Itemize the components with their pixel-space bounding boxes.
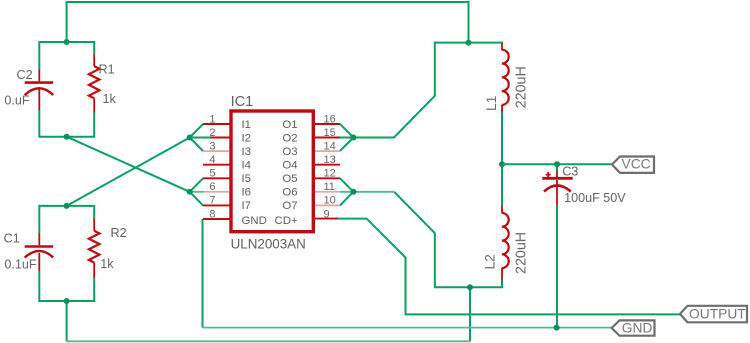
- svg-text:ULN2003AN: ULN2003AN: [231, 236, 306, 251]
- svg-text:I2: I2: [242, 132, 252, 144]
- svg-text:14: 14: [324, 140, 336, 152]
- svg-text:5: 5: [209, 168, 215, 180]
- svg-text:2: 2: [209, 127, 215, 139]
- svg-text:6: 6: [209, 181, 215, 193]
- svg-text:O7: O7: [282, 200, 297, 212]
- svg-text:C3: C3: [562, 165, 578, 179]
- svg-text:8: 8: [209, 208, 215, 220]
- svg-text:220uH: 220uH: [514, 66, 530, 108]
- svg-text:4: 4: [209, 154, 215, 166]
- svg-text:I3: I3: [242, 146, 252, 158]
- svg-text:GND: GND: [242, 215, 267, 227]
- svg-text:I1: I1: [242, 119, 252, 131]
- svg-text:I6: I6: [242, 187, 252, 199]
- svg-text:L2: L2: [483, 254, 498, 269]
- svg-text:L1: L1: [484, 96, 499, 111]
- svg-text:VCC: VCC: [622, 157, 651, 172]
- svg-text:O3: O3: [282, 146, 297, 158]
- svg-text:CD+: CD+: [274, 215, 297, 227]
- svg-text:O2: O2: [282, 132, 297, 144]
- svg-text:1: 1: [209, 113, 215, 125]
- svg-text:7: 7: [209, 195, 215, 207]
- svg-text:15: 15: [324, 127, 336, 139]
- svg-text:10: 10: [324, 195, 336, 207]
- svg-text:OUTPUT: OUTPUT: [689, 306, 746, 321]
- svg-text:O6: O6: [282, 187, 297, 199]
- svg-text:100uF 50V: 100uF 50V: [564, 191, 626, 205]
- svg-text:R1: R1: [99, 63, 115, 77]
- svg-text:220uH: 220uH: [514, 232, 530, 274]
- svg-text:R2: R2: [111, 226, 127, 240]
- svg-text:9: 9: [324, 208, 330, 220]
- svg-text:3: 3: [209, 140, 215, 152]
- svg-text:I5: I5: [242, 173, 252, 185]
- svg-text:O4: O4: [282, 160, 297, 172]
- svg-text:O5: O5: [282, 173, 297, 185]
- svg-text:IC1: IC1: [231, 94, 254, 110]
- svg-text:1k: 1k: [103, 92, 117, 106]
- svg-text:1k: 1k: [100, 257, 114, 271]
- svg-text:16: 16: [324, 113, 336, 125]
- svg-text:I4: I4: [242, 160, 252, 172]
- svg-text:O1: O1: [282, 119, 297, 131]
- svg-text:I7: I7: [242, 200, 252, 212]
- svg-text:12: 12: [324, 168, 336, 180]
- svg-text:C2: C2: [17, 68, 33, 82]
- svg-text:C1: C1: [4, 232, 20, 246]
- svg-text:0.uF: 0.uF: [4, 93, 30, 107]
- svg-text:GND: GND: [622, 321, 653, 336]
- svg-text:11: 11: [324, 181, 335, 193]
- svg-text:13: 13: [324, 154, 336, 166]
- svg-text:0.1uF: 0.1uF: [4, 258, 37, 272]
